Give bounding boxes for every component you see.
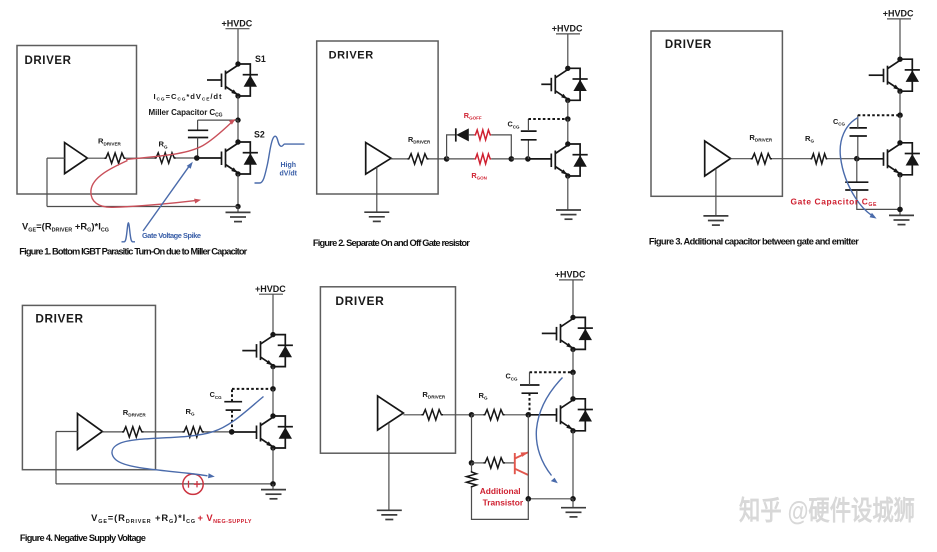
blue arc additional transistor callout [536, 378, 562, 476]
blue loop negative supply callout [112, 397, 264, 476]
svg-text:+ VNEG-SUPPLY: + VNEG-SUPPLY [198, 512, 252, 525]
wire HVDC underline fig4 [259, 293, 283, 295]
resistor RGON (red) [474, 154, 491, 164]
resistor RDRIVER fig2 [407, 154, 429, 164]
ground fig3 bridge [889, 215, 914, 224]
wire top emitter to midpoint fig4 [272, 367, 274, 389]
capacitor CCG fig5 plates [520, 384, 540, 386]
svg-text:VGE=(RDRIVER +RG)*ICG: VGE=(RDRIVER +RG)*ICG [91, 512, 195, 525]
wire midpoint to bottom collector [567, 119, 569, 144]
node CGE return junction [897, 207, 903, 213]
wire branch to RG fig5 [472, 414, 484, 416]
svg-text:Gate Capacitor CGE: Gate Capacitor CGE [791, 196, 878, 208]
wire HVDC rail fig3 [899, 19, 901, 59]
node gate fig3 [854, 156, 860, 162]
svg-text:CCG: CCG [833, 117, 846, 127]
transistor top IGBT fig3 [884, 57, 920, 94]
wire HVDC rail to S1 collector [237, 29, 239, 64]
transistor bottom IGBT fig2 [551, 141, 587, 178]
resistor base (additional transistor) [484, 458, 506, 468]
waveform gate voltage spike [122, 223, 136, 242]
wire branch node down to base node [471, 415, 473, 463]
svg-text:RDRIVER: RDRIVER [422, 390, 446, 400]
resistor RDRIVER fig5 [422, 410, 444, 420]
driver box fig1 [17, 46, 137, 195]
node CCG tap fig2 [525, 156, 531, 162]
wire gate node to IGBT gate fig4 [232, 431, 257, 433]
svg-text:Additional: Additional [480, 486, 521, 496]
capacitor CGE plates [845, 181, 868, 183]
wire amp ground stem fig5 [388, 423, 390, 511]
svg-text:DRIVER: DRIVER [25, 55, 72, 67]
capacitor CGE bottom lead [857, 190, 900, 209]
transistor additional (red) [515, 452, 528, 475]
capacitor CCG fig5 top lead [529, 372, 531, 385]
wire split node to RGON [447, 158, 475, 160]
capacitor CCG fig5 dashed bottom lead [529, 393, 531, 415]
op-amp driver buffer fig1 [65, 143, 88, 174]
wire bottom emitter to ground [567, 176, 569, 210]
svg-text:S1: S1 [255, 54, 266, 64]
wire top IGBT gate lead fig4 [242, 350, 256, 352]
svg-text:RG: RG [805, 134, 814, 144]
ground fig2 bridge [556, 210, 581, 219]
svg-text:RG: RG [186, 407, 195, 417]
wire amp ground stem fig3 [715, 169, 717, 216]
wire HVDC rail fig5 [572, 280, 574, 318]
svg-text:知乎 @硬件设城狮: 知乎 @硬件设城狮 [739, 496, 915, 526]
svg-text:RG: RG [479, 391, 488, 401]
wire HVDC rail fig2 [567, 34, 569, 68]
svg-text:High: High [281, 162, 297, 169]
wire bottom emitter to return fig4 [272, 448, 274, 484]
wire feedback vertical [46, 158, 48, 206]
wire feedback vertical fig4 [55, 432, 57, 484]
wire dashed CCG to midpoint fig5 [530, 371, 574, 373]
node branch fig5 [469, 412, 475, 418]
node gate fig4 [229, 429, 235, 435]
wire bottom emitter down fig3 [899, 175, 901, 216]
node midpoint fig2 [565, 116, 571, 122]
node midpoint fig5 [570, 370, 576, 376]
node gate fig5 [526, 412, 532, 418]
node midpoint fig4 [270, 386, 276, 392]
wire RDRIVER to RG [126, 157, 155, 159]
capacitor CCG fig2: bottom lead [527, 140, 529, 159]
capacitor CCG fig3: bottom lead [857, 136, 859, 159]
svg-text:RDRIVER: RDRIVER [749, 133, 773, 143]
svg-text:S2: S2 [254, 130, 265, 140]
wire return bottom [47, 206, 238, 208]
svg-text:+HVDC: +HVDC [552, 24, 583, 34]
wire top emitter to midpoint fig3 [899, 91, 901, 115]
wire RGOFF to right riser [491, 135, 511, 159]
svg-text:DRIVER: DRIVER [665, 39, 712, 51]
op-amp driver buffer fig4 [78, 414, 103, 450]
voltage source minus bar [188, 481, 190, 488]
wire top IGBT gate lead fig2 [541, 83, 551, 85]
svg-text:dV/dt: dV/dt [280, 171, 298, 178]
wire pull-down bottom loop [472, 488, 529, 520]
wire gate node to IGBT gate fig5 [528, 414, 556, 416]
driver box fig5 [320, 287, 455, 453]
wire RDRIVER to RG fig4 [144, 431, 183, 433]
wire midpoint to bottom collector fig5 [572, 372, 574, 399]
wire gate node to IGBT gate fig3 [857, 158, 884, 160]
blue arrow to gate node [143, 167, 189, 231]
resistor RGOFF (red) [474, 130, 491, 140]
svg-text:CCG: CCG [506, 372, 519, 382]
wire amp ground stem fig2 [376, 167, 378, 212]
transistor S1 (IGBT with antiparallel diode) [222, 61, 258, 98]
wire RDRIVER to split node [429, 158, 447, 160]
driver box fig3 [651, 31, 782, 196]
wire HVDC underline fig3 [887, 18, 911, 20]
wire amp output fig3 [731, 158, 751, 160]
wire top IGBT gate lead fig5 [542, 332, 557, 334]
wire amp output fig2 [391, 158, 407, 160]
driver box fig4 [22, 305, 155, 469]
resistor RDRIVER fig3 [751, 154, 773, 164]
capacitor CCG fig2: top lead [527, 119, 529, 131]
wire HVDC underline fig5 [559, 279, 583, 281]
svg-text:VGE=(RDRIVER +RG)*ICG: VGE=(RDRIVER +RG)*ICG [22, 220, 109, 233]
wire RG to gate node fig5 [505, 414, 529, 416]
capacitor CCG fig4 dashed bottom lead [231, 410, 233, 432]
node gate S2 [194, 155, 200, 161]
resistor RG fig5 [483, 410, 505, 420]
resistor RG fig1 [154, 153, 176, 163]
transistor top IGBT fig4 [257, 332, 293, 369]
capacitor CCG Miller: top wire [198, 119, 238, 121]
node split fig2 [444, 156, 450, 162]
wire amp input fig4 [56, 431, 78, 433]
driver box fig2 [317, 41, 438, 194]
wire amp output [87, 157, 104, 159]
svg-text:DRIVER: DRIVER [329, 50, 374, 62]
node return junction fig4 [270, 481, 276, 487]
svg-text:Figure 4. Negative Supply Volt: Figure 4. Negative Supply Voltage [20, 533, 146, 543]
svg-text:RDRIVER: RDRIVER [408, 135, 431, 145]
wire S1 gate lead [207, 79, 222, 81]
wire base node to base resistor [472, 462, 484, 464]
transistor bottom IGBT fig3 [884, 140, 920, 177]
svg-text:RG: RG [159, 140, 168, 150]
wire dashed CCG to midpoint [528, 118, 567, 120]
wire HVDC underline fig1 [226, 28, 250, 30]
svg-text:RGOFF: RGOFF [464, 111, 482, 121]
node return fig5 [570, 496, 576, 502]
wire top emitter to midpoint [567, 100, 569, 119]
wire cap tap to bottom IGBT gate [528, 158, 551, 160]
op-amp driver buffer fig5 [378, 396, 404, 430]
resistor pull-down vertical fig5 [467, 471, 477, 488]
blue arc gate capacitor callout [840, 118, 872, 216]
wire RG to gate node [176, 157, 197, 159]
wire bottom tie to bridge return [528, 498, 573, 500]
resistor RG fig4 [183, 427, 205, 437]
transistor S2 (IGBT with antiparallel diode) [222, 139, 258, 176]
node midpoint fig3 [897, 112, 903, 118]
capacitor CCG fig4 plates [224, 401, 242, 403]
capacitor CCG fig2: plates [521, 139, 537, 141]
voltage source negative supply (red circle) [183, 474, 203, 494]
svg-text:+HVDC: +HVDC [555, 270, 586, 280]
capacitor CGE gate capacitor: top lead [856, 159, 858, 183]
capacitor CCG Miller: bottom lead [197, 138, 199, 159]
red loop return path [91, 161, 196, 208]
capacitor CCG Miller: top lead [197, 120, 199, 130]
wire amp output fig4 [102, 431, 122, 433]
node tie fig5 [526, 496, 532, 502]
diode off-path (points left) [455, 128, 457, 141]
wire midpoint to bottom collector fig4 [272, 389, 274, 416]
svg-text:ICG=CCG*dVCE/dt: ICG=CCG*dVCE/dt [154, 92, 222, 103]
wire bottom emitter to return node fig5 [572, 431, 574, 499]
wire amp output fig5 [403, 414, 421, 416]
svg-text:Figure 2. Separate On and Off: Figure 2. Separate On and Off Gate resis… [313, 238, 470, 248]
wire midpoint to bottom collector fig3 [899, 115, 901, 143]
svg-text:DRIVER: DRIVER [35, 311, 83, 325]
svg-text:+HVDC: +HVDC [883, 9, 914, 19]
svg-text:+HVDC: +HVDC [222, 18, 253, 28]
wire gate node to S2 gate [197, 157, 222, 159]
transistor top IGBT fig5 [557, 315, 593, 352]
wire RGON to merge node [491, 158, 511, 160]
ground fig5 driver [377, 510, 402, 519]
svg-text:DRIVER: DRIVER [335, 294, 384, 308]
transistor top IGBT fig2 [551, 66, 587, 103]
ground fig5 bridge [572, 499, 574, 508]
wire S2 emitter to ground node [237, 174, 239, 207]
wire RDRIVER to branch node fig5 [443, 414, 472, 416]
op-amp driver buffer fig3 [705, 141, 731, 176]
wire RG to gate node fig3 [827, 158, 856, 160]
wire amp input [47, 157, 65, 159]
wire top emitter to midpoint fig5 [572, 349, 574, 372]
op-amp driver buffer fig2 [366, 143, 391, 175]
wire gate vertical through transistor fig5 [527, 415, 529, 499]
capacitor CCG fig3: top lead [857, 115, 859, 128]
voltage source plus sign [194, 481, 200, 487]
ground fig3 driver [703, 216, 728, 225]
svg-text:RDRIVER: RDRIVER [123, 408, 147, 418]
wire HVDC underline fig2 [556, 33, 580, 35]
svg-text:CCG: CCG [210, 390, 223, 400]
wire up-branch left riser [447, 135, 456, 159]
wire RG to gate node fig4 [204, 431, 232, 433]
red current path through resistors up to Miller node [126, 121, 234, 160]
wire tap node to S2 collector [237, 120, 239, 142]
svg-text:Transistor: Transistor [483, 497, 524, 507]
waveform high dV/dt [255, 136, 305, 183]
ground fig2 driver [364, 212, 389, 221]
ground fig4 bridge [272, 484, 274, 490]
wire RDRIVER to RG fig3 [772, 158, 810, 160]
resistor RDRIVER fig4 [122, 427, 144, 437]
ground fig1 bridge [237, 207, 239, 213]
svg-text:CCG: CCG [508, 120, 521, 130]
svg-text:RGON: RGON [471, 171, 487, 181]
node Miller capacitor tap [235, 117, 240, 122]
node emitter/return junction [235, 204, 240, 209]
node merge fig2 [509, 156, 515, 162]
resistor RDRIVER fig1 [104, 153, 126, 163]
wire S1 emitter to Miller tap node [237, 96, 239, 120]
resistor RG fig3 [810, 154, 827, 164]
wire merge to cap tap [511, 158, 528, 160]
wire dashed CCG to midpoint fig3 [858, 114, 900, 116]
capacitor CCG Miller: plates [188, 129, 208, 131]
capacitor CCG fig4 dashed top lead [231, 389, 233, 402]
svg-text:Figure 3. Additional capacitor: Figure 3. Additional capacitor between g… [649, 236, 859, 246]
node base branch fig5 [469, 460, 475, 466]
svg-text:RDRIVER: RDRIVER [98, 137, 122, 147]
transistor bottom IGBT fig4 [257, 413, 293, 450]
transistor bottom IGBT fig5 [557, 396, 593, 433]
wire top IGBT gate lead fig3 [869, 74, 884, 76]
svg-text:+HVDC: +HVDC [255, 284, 286, 294]
svg-text:Miller Capacitor CCG: Miller Capacitor CCG [149, 108, 223, 119]
capacitor CCG fig3: plates [850, 135, 867, 137]
svg-text:Gate Voltage Spike: Gate Voltage Spike [142, 231, 201, 240]
wire diode to RGOFF [469, 134, 474, 136]
svg-text:Figure 1. Bottom IGBT Parasiti: Figure 1. Bottom IGBT Parasitic Turn-On … [19, 247, 247, 257]
wire return bottom fig4 [56, 483, 273, 485]
wire vertical resistor top lead [471, 463, 473, 471]
wire dashed CCG to midpoint fig4 [232, 388, 273, 390]
red arrowhead on return path [194, 199, 201, 204]
red arrowhead at Miller node [229, 119, 236, 125]
wire HVDC rail fig4 [272, 294, 274, 334]
wire base resistor to transistor base [505, 462, 515, 464]
